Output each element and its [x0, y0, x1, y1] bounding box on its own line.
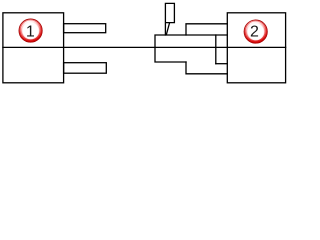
device box 2: [227, 13, 285, 83]
svg-text:1: 1: [26, 24, 35, 41]
callout circle 1: [19, 19, 43, 43]
latch tab: [165, 3, 174, 35]
connector body outline: [155, 35, 227, 62]
callout circle 2: [244, 20, 268, 44]
latch diagonal strut: [166, 23, 169, 35]
connector lower flange: [186, 62, 227, 74]
pin P2 (bottom): [64, 63, 107, 73]
connector tip bottom: [216, 63, 228, 65]
connector upper flange: [186, 24, 227, 35]
svg-text:2: 2: [250, 24, 259, 41]
connector tip vertical: [215, 35, 217, 64]
box 1 divider / cable wire / centre line: [3, 46, 286, 48]
device box 1: [3, 13, 64, 83]
pin P1 (top): [64, 24, 106, 33]
